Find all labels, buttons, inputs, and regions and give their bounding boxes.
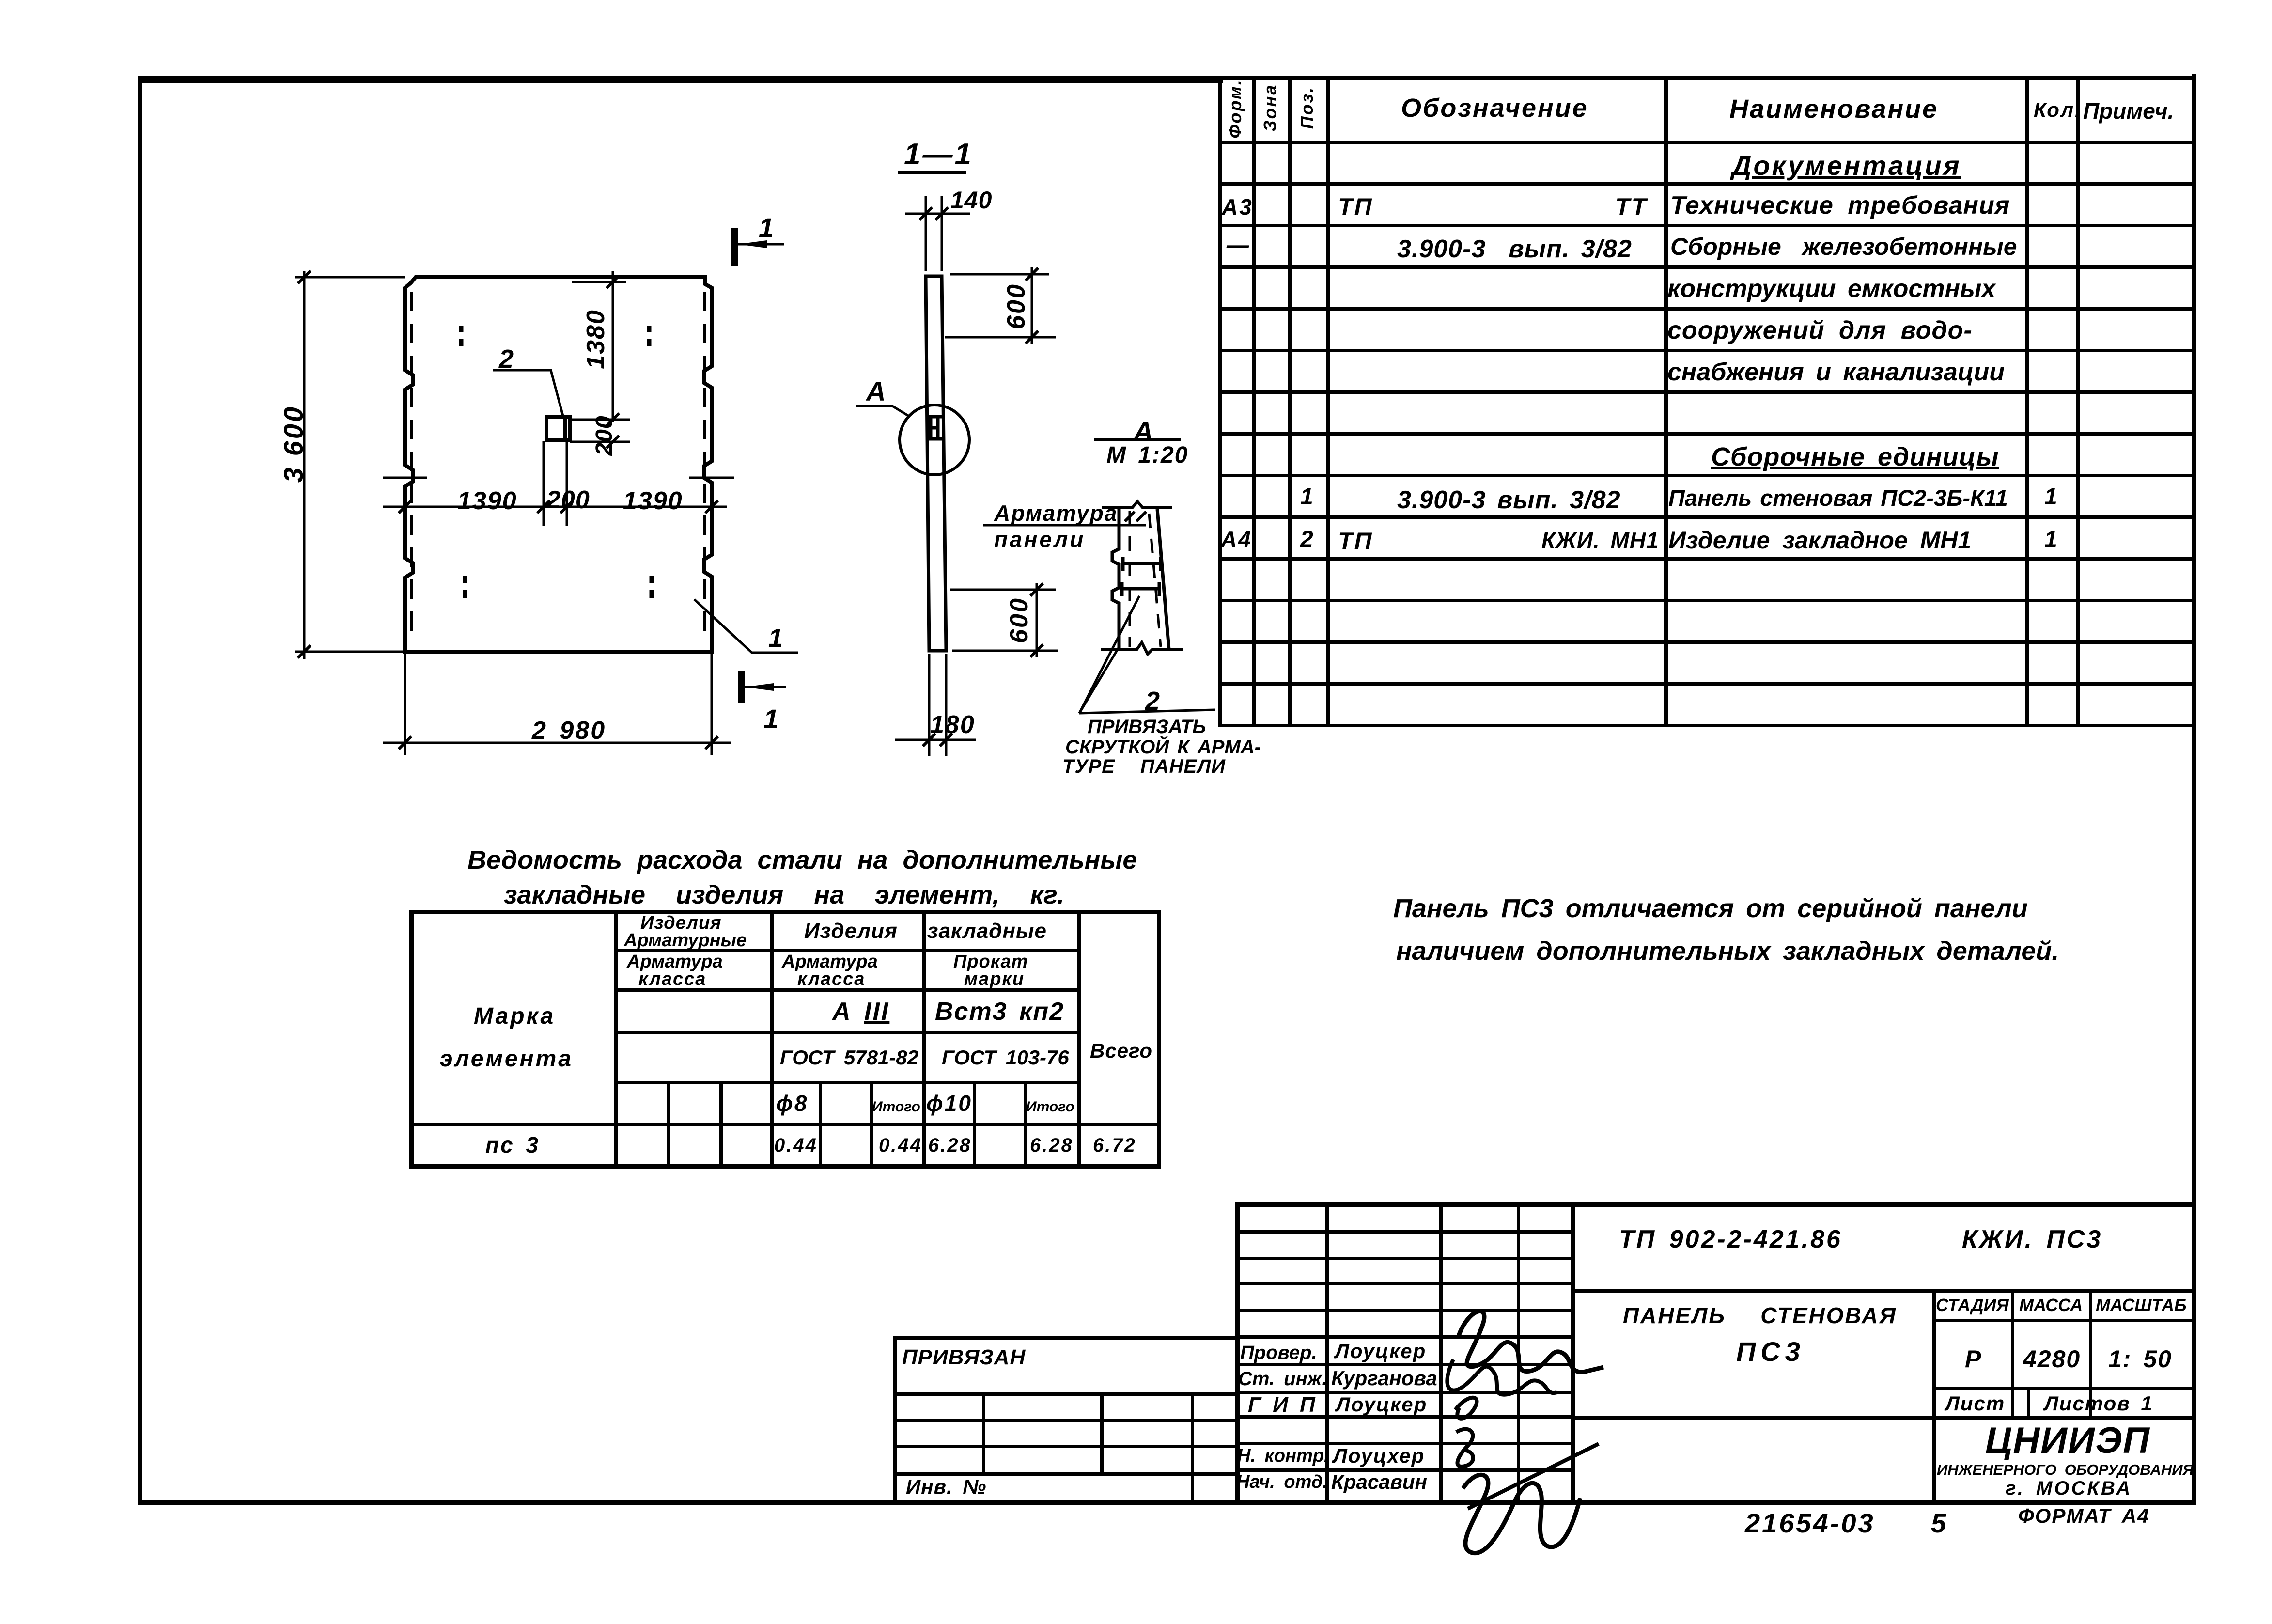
detail A armatura leader [983,524,1146,527]
bottom doc number 21654-03 [1745,1510,1875,1537]
attach strip box [893,1336,1235,1340]
detail circle A [900,405,969,475]
section 180 dim [895,654,976,756]
steel hdr Armatura klassa 2 [782,953,878,971]
title divider massa [2011,1289,2014,1416]
spec row 2 TP [1338,529,1373,553]
steel val A-III [832,999,889,1024]
steel val 6.72 [1093,1136,1136,1155]
spec header Naimenovanie [1729,96,1938,122]
spec row KZHI.MN1 [1541,529,1659,551]
embed plate 200 width extension lines [544,441,567,526]
panel horizontal centerline [383,506,727,508]
steel table title line 2 [504,882,1064,908]
steel val GOST 103-76 [942,1047,1069,1068]
sig name Louker 2 [1336,1394,1427,1415]
dim text 1390 right [623,488,683,514]
steel hdr Izdeliya (armaturnye) [640,914,722,932]
title divider masshtab [2089,1289,2092,1416]
dim text 200 [546,487,590,513]
sig row GIP [1248,1394,1316,1416]
spec header Oboznachenie [1401,95,1588,121]
signature diagonal stroke [1468,1444,1599,1509]
detail A bottom edge with break [1101,642,1183,654]
rebar mark top-right [647,326,652,346]
sig name Loukher [1333,1446,1425,1466]
bottom Format A4 [2018,1506,2150,1526]
detail scale M 1:20 [1106,444,1188,467]
title org CNIIEP [1985,1422,2150,1459]
detail A leader 2 lines [1079,596,1215,713]
title hdr Masshtab [2096,1296,2187,1314]
steel val 6.28 a [928,1136,972,1155]
title hdr Massa [2019,1296,2083,1314]
specification table grid [1218,76,2192,80]
steel val 0.44 b [879,1136,922,1155]
spec section heading Dokumentaciya [1732,152,1961,179]
spec row A4 format [1221,528,1252,550]
frame bottom border [138,1500,2196,1505]
spec header Zona (rotated) [1261,84,1279,132]
title Listov 1 [2044,1393,2153,1414]
note Skrutkoy k arma- [1065,737,1261,757]
title line under TP 902 [1571,1289,2192,1293]
spec row Izdelie zakladnoe MN1 [1668,528,1971,552]
signature scribble 2 (GIP) [1455,1398,1477,1419]
spec section heading Sborochnye edinicy [1711,444,1999,470]
signature scribble 4 (Nach.otd large flourish) [1463,1475,1580,1553]
dim 1380 extension+line [572,271,626,422]
spec row TT [1615,195,1648,219]
steel val Vst3 kp2 [935,999,1064,1024]
title block outer [1235,1202,2192,1207]
steel hdr dia 8 [776,1092,808,1114]
title name Panel stenovaya [1623,1304,1897,1327]
frame left border [138,77,142,1504]
steel hdr Armatura klassa 1 [627,953,723,971]
sig row N kontr [1237,1447,1329,1465]
spec row snabzheniya i kanalizacii [1667,359,2005,385]
spec row Sbornye zhelezobetonnye [1670,234,2017,259]
title doc number [1619,1227,1842,1252]
embed cross-section symbol in circle [927,417,942,439]
title doc code KZHI PS3 [1962,1227,2102,1252]
dim text 180 [930,712,975,737]
spec header Poz (rotated) [1298,86,1316,129]
dim text 2980 [532,718,606,743]
rebar mark top-left [459,326,464,346]
detail A plate marks [1123,557,1161,571]
label paneli [994,528,1085,550]
panel inner dashed edge right [703,292,706,642]
title val 1:50 [2108,1347,2172,1371]
dim 3600 [295,271,405,659]
section 1-1 wall bar [926,276,946,651]
spec header Kol [2034,100,2082,120]
spec row TP [1338,195,1373,219]
dim text 3600 [280,405,307,483]
dim text 1380 [583,309,608,369]
spec header Primech [2083,100,2174,122]
rebar mark bottom-right [650,576,654,598]
section 600 top dim [945,267,1056,344]
dim 2980 [383,652,731,755]
spec header Form (rotated) [1227,78,1244,138]
panel plan outline [405,277,712,652]
sig row Nach otd [1236,1473,1328,1491]
plan leader label 2 [499,346,515,372]
steel val 0.44 a [774,1136,818,1155]
steel hdr Izdeliya zakladnye [804,921,898,942]
title org line 2 [1937,1462,2194,1477]
title divider List/Listov [2027,1387,2030,1416]
leader 1 bottom-right [694,599,798,653]
dim text 140 [950,188,992,212]
note line 2 [1396,938,2059,964]
rebar mark bottom-left [463,576,467,598]
title org Moscow [2006,1479,2132,1498]
panel inner dashed edge left [410,292,413,642]
edge tick marks mid-bottom row [383,477,734,479]
title divider stadia section [1932,1289,1936,1500]
title name PS3 [1736,1338,1805,1365]
spec row poz 1 [1300,485,1315,509]
detail A inner dashed bars [1129,511,1131,647]
sig row St inzh [1238,1369,1327,1389]
section mark bottom [738,671,745,703]
section 1-1 140 extensions [905,196,970,271]
label Armatura [994,502,1118,524]
embed plate MN1 (pos 2) [546,417,570,440]
spec row poz 2 [1300,528,1315,551]
plan leader label 1 [768,625,784,651]
bottom sheet number 5 [1931,1510,1947,1537]
dim text 1390 left [457,488,517,514]
sig name Kurganova [1331,1368,1437,1389]
detail title A [1134,418,1154,445]
spec row A3 format [1222,196,1253,218]
signature scribble 3 (N.kontr, figure-8) [1456,1429,1473,1467]
dim text 600 top [1004,283,1029,329]
title block signature grid [1235,1230,1571,1234]
detail A panel edges [1102,501,1172,507]
title hdr Stadiya [1936,1296,2009,1314]
sig name Louker 1 [1335,1341,1426,1361]
section 600 bottom dim [950,583,1058,657]
title List [1945,1393,2005,1414]
detail callout A [866,378,887,405]
dim text 200 vert [593,415,616,455]
note line 1 [1393,895,2028,921]
spec row sooruzhenij dlya vodo- [1667,318,1973,343]
section title 1-1 [904,140,973,170]
spec row 2 qty [2044,528,2059,551]
steel col Marka [474,1005,555,1028]
steel hdr dia 10 [926,1092,972,1114]
dim text 600 bottom [1007,597,1032,643]
title line above List row [1932,1387,2192,1390]
detail A underline [1094,438,1181,441]
title val 4280 [2023,1347,2081,1371]
leader 2 [493,370,563,416]
title val P [1965,1347,1982,1371]
steel row ps 3 [485,1134,540,1156]
steel col Vsego [1090,1041,1152,1061]
title line under stadia header [1932,1319,2192,1322]
spec row konstrukcii emkostnykh [1667,276,1995,301]
sig row Prover [1240,1343,1317,1362]
section mark top [731,228,738,266]
steel hdr Itogo 2 [1026,1100,1074,1114]
detail A top ticks [1125,512,1135,521]
frame right border [2192,74,2196,1505]
spec row Tekhnicheskie trebovaniya [1670,193,2010,218]
frame top border [138,76,1223,83]
spec row Panel stenovaya PS2-3B-K11 [1668,486,2008,509]
steel consumption table grid [409,910,1161,914]
section mark label 1 top [759,214,775,241]
steel val GOST 5781-82 [780,1047,918,1068]
note Privyazat [1088,717,1206,736]
title line under name cell [1571,1416,2192,1420]
dim 200 vertical (plate) [570,420,630,442]
signature scribble 1 (Prover/St.inzh) [1458,1311,1603,1372]
leader A [856,406,910,417]
spec row 1 qty [2044,485,2059,509]
strip Inv No [906,1477,986,1497]
section mark label 1 bottom [763,705,780,733]
steel table title line 1 [467,847,1137,873]
note ture paneli [1062,757,1226,776]
strip Privyazan [902,1347,1026,1368]
steel val 6.28 b [1030,1136,1074,1155]
detail leader label 2 [1145,688,1161,714]
steel hdr Itogo 1 [872,1100,920,1114]
steel hdr Prokat marki [953,953,1028,971]
spec row 1 oboznachenie [1397,487,1621,513]
spec row dash format [1227,234,1250,256]
steel col elementa [440,1047,573,1071]
sig name Krasavin [1331,1472,1427,1492]
spec row 3.900-3 vyp 3/82 [1397,236,1632,262]
